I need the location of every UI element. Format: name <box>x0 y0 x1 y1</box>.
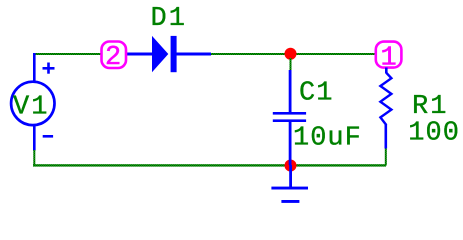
svg-text:10uF: 10uF <box>293 123 362 153</box>
svg-text:2: 2 <box>105 43 121 73</box>
svg-text:100: 100 <box>408 118 460 148</box>
svg-text:C1: C1 <box>299 79 333 109</box>
svg-text:1: 1 <box>381 43 397 73</box>
svg-text:D1: D1 <box>151 4 187 34</box>
svg-text:V1: V1 <box>13 92 49 122</box>
